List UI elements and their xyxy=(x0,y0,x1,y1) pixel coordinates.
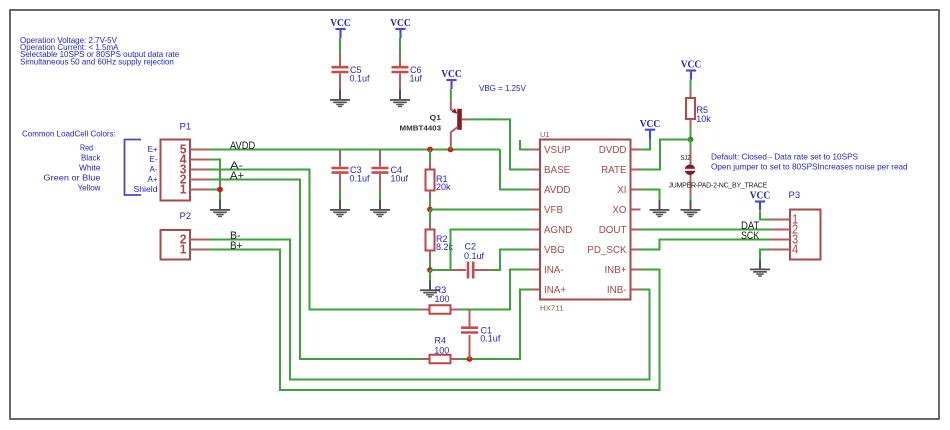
svg-text:U1: U1 xyxy=(540,130,550,139)
svg-text:DVDD: DVDD xyxy=(599,145,627,156)
svg-text:A-: A- xyxy=(150,165,158,174)
svg-text:VCC: VCC xyxy=(640,118,661,130)
jumper SJ2 pads xyxy=(684,165,696,176)
ground symbol AGND xyxy=(420,289,440,297)
junction dot RATE (green) xyxy=(688,137,694,143)
svg-text:A+: A+ xyxy=(230,170,244,182)
wire C3 to ground xyxy=(339,191,341,201)
connector P3 box xyxy=(790,210,821,260)
capacitor C4 xyxy=(372,168,389,173)
capacitor C3 bottom pin xyxy=(339,174,341,191)
wire DOUT net xyxy=(641,229,771,231)
capacitor C1 top pin xyxy=(469,310,471,327)
junction dot AVDD/Q1 collector xyxy=(448,147,454,153)
svg-text:AVDD: AVDD xyxy=(544,185,571,196)
svg-text:P2: P2 xyxy=(180,211,192,222)
vcc symbol P3 xyxy=(750,190,771,211)
resistor R1 top pin xyxy=(429,161,431,170)
ground symbol C3 xyxy=(330,209,350,217)
resistor R1 bottom pin xyxy=(429,191,431,199)
wire VCC to Q1 emitter xyxy=(450,89,452,100)
svg-text:E+: E+ xyxy=(147,145,157,154)
svg-text:VSUP: VSUP xyxy=(544,145,571,156)
svg-text:INA+: INA+ xyxy=(544,285,566,296)
transistor Q1 base pin xyxy=(462,118,469,120)
wire Q1 collector to AVDD xyxy=(450,146,452,150)
svg-text:P3: P3 xyxy=(789,190,801,201)
svg-text:Yellow: Yellow xyxy=(78,183,102,193)
svg-text:INB+: INB+ xyxy=(604,265,626,276)
U1 right pin stub XO xyxy=(631,209,641,211)
resistor R2 xyxy=(426,230,435,251)
wire R4 to INA+ xyxy=(460,290,531,360)
svg-text:A+: A+ xyxy=(147,175,157,184)
wire VFB to R2 xyxy=(429,210,431,222)
P3 pin 3 stub xyxy=(770,239,790,241)
svg-text:JUMPER-PAD-2-NC_BY_TRACE: JUMPER-PAD-2-NC_BY_TRACE xyxy=(669,183,768,190)
junction dot AVDD/R1 xyxy=(427,147,433,153)
svg-text:VCC: VCC xyxy=(330,17,351,29)
wire AVDD main horizontal xyxy=(210,149,501,151)
resistor R4 xyxy=(430,355,451,364)
wire RATE to SJ2 xyxy=(690,140,692,149)
capacitor C2 left pin xyxy=(451,269,467,271)
ic U1 box xyxy=(540,140,631,300)
svg-text:BASE: BASE xyxy=(544,165,571,176)
wire VCC to R5 xyxy=(690,79,692,90)
connector P1 box xyxy=(161,140,191,201)
wire A- net xyxy=(210,170,420,310)
connector P2 box xyxy=(161,230,191,260)
svg-text:Default: Closed - Data rate se: Default: Closed - Data rate set to 10SPS xyxy=(711,152,859,161)
wire VCC to P3 pin1 xyxy=(760,211,770,220)
junction dot AGND xyxy=(427,267,433,273)
U1 left pin stub VSUP xyxy=(531,149,541,151)
wire Shield pin to junction xyxy=(210,189,221,191)
svg-text:Green or Blue: Green or Blue xyxy=(44,173,101,183)
ground symbol P1 xyxy=(210,209,230,217)
svg-text:SCK: SCK xyxy=(741,230,760,242)
svg-text:100: 100 xyxy=(435,294,450,304)
capacitor C3 xyxy=(332,168,349,173)
resistor R2 bottom pin xyxy=(429,251,431,259)
capacitor C6 xyxy=(392,67,409,72)
resistor R1 xyxy=(426,170,435,191)
svg-text:HX711: HX711 xyxy=(540,304,564,313)
capacitor C2 right pin xyxy=(474,269,491,271)
ground stub C3 xyxy=(339,200,341,210)
svg-text:1: 1 xyxy=(180,242,187,257)
svg-text:Simultaneous 50 and 60Hz suppl: Simultaneous 50 and 60Hz supply rejectio… xyxy=(20,57,174,66)
svg-text:AGND: AGND xyxy=(544,225,572,236)
svg-text:B+: B+ xyxy=(230,240,243,252)
U1 right pin stub PD_SCK xyxy=(631,249,641,251)
wire RATE net xyxy=(641,140,691,170)
svg-text:0.1uf: 0.1uf xyxy=(350,74,371,84)
capacitor C3 top pin xyxy=(339,150,341,167)
wire B+ net xyxy=(210,250,660,391)
capacitor C2 xyxy=(468,262,473,279)
capacitor C4 bottom pin xyxy=(379,174,381,191)
P3 pin 4 stub xyxy=(770,249,790,251)
resistor R3 left pin xyxy=(420,309,430,311)
resistor R4 left pin xyxy=(420,358,430,360)
wire BASE net xyxy=(469,119,531,169)
svg-text:Black: Black xyxy=(81,152,101,162)
svg-text:Common LoadCell Colors:: Common LoadCell Colors: xyxy=(22,130,116,139)
P1 pin 2 stub xyxy=(190,179,210,181)
transistor Q1 collector pin xyxy=(451,127,458,146)
junction dot VFB xyxy=(427,207,433,213)
svg-text:P1: P1 xyxy=(180,121,192,132)
svg-text:RATE: RATE xyxy=(601,165,627,176)
resistor R3 right pin xyxy=(451,309,461,311)
P1 pin 4 stub xyxy=(190,159,210,161)
resistor R3 xyxy=(430,305,451,314)
U1 right pin stub INB- xyxy=(631,289,641,291)
U1 left pin stub VFB xyxy=(531,209,541,211)
resistor R5 bottom pin xyxy=(690,119,692,128)
junction dot R4/C1 xyxy=(467,356,473,362)
wire AVDD drop to U1 xyxy=(500,150,531,190)
vcc symbol above C6 xyxy=(390,17,411,38)
U1 right pin stub DVDD xyxy=(631,149,641,151)
capacitor C4 top pin xyxy=(379,150,381,167)
ground symbol XI xyxy=(650,209,670,217)
ground symbol C4 xyxy=(370,209,390,217)
wire XI to ground xyxy=(641,190,660,201)
wire B- net xyxy=(210,240,650,380)
svg-text:4: 4 xyxy=(792,242,798,257)
svg-text:SJ2: SJ2 xyxy=(681,153,691,162)
svg-text:E-: E- xyxy=(150,155,158,164)
vcc symbol above R5 xyxy=(681,59,702,80)
svg-text:VBG = 1.25V: VBG = 1.25V xyxy=(479,84,527,93)
svg-text:VBG: VBG xyxy=(544,245,565,256)
svg-text:0.1uf: 0.1uf xyxy=(480,334,501,344)
U1 left pin stub INA- xyxy=(531,269,541,271)
resistor R2 top pin xyxy=(429,222,431,230)
resistor R5 top pin xyxy=(690,90,692,98)
U1 right pin stub XI xyxy=(631,189,641,191)
wire VBG net xyxy=(491,250,531,271)
svg-text:PD_SCK: PD_SCK xyxy=(587,245,627,256)
svg-text:DOUT: DOUT xyxy=(599,225,627,236)
U1 left pin stub INA+ xyxy=(531,289,541,291)
svg-text:C2: C2 xyxy=(465,242,477,252)
wire AVDD to R1 xyxy=(429,150,431,162)
wire VFB xyxy=(430,209,531,211)
ground symbol P3 xyxy=(750,269,770,277)
capacitor C1 bottom pin xyxy=(469,335,471,359)
wire R1 to VFB node xyxy=(429,199,431,210)
svg-text:VFB: VFB xyxy=(544,205,564,216)
ground stub P1 xyxy=(219,200,221,210)
P2 pin 2 stub xyxy=(190,239,210,241)
ground stub C5 xyxy=(339,90,341,100)
capacitor C1 xyxy=(461,328,478,333)
svg-text:10k: 10k xyxy=(696,114,711,124)
capacitor C6 bottom pin xyxy=(399,74,401,90)
svg-text:1: 1 xyxy=(180,182,187,197)
svg-text:Shield: Shield xyxy=(134,185,158,194)
P2 pin 1 stub xyxy=(190,249,210,251)
wire R3 to INA- xyxy=(460,270,531,310)
wire VCC to C5 xyxy=(339,38,341,52)
U1 right pin stub INB+ xyxy=(631,269,641,271)
wire R2 to AGND node xyxy=(429,259,431,271)
vcc symbol DVDD xyxy=(640,118,661,139)
legend bracket xyxy=(125,140,142,196)
U1 left pin stub VBG xyxy=(531,249,541,251)
capacitor C5 bottom pin xyxy=(339,74,341,90)
svg-text:MMBT4403: MMBT4403 xyxy=(400,124,442,133)
svg-text:R4: R4 xyxy=(435,336,447,346)
ground stub P3 xyxy=(759,261,761,270)
U1 left pin stub AVDD xyxy=(531,189,541,191)
transistor Q1 base bar xyxy=(457,109,462,130)
svg-text:INB-: INB- xyxy=(607,285,627,296)
ground stub C4 xyxy=(379,200,381,210)
wire E- net xyxy=(210,160,221,200)
svg-text:VCC: VCC xyxy=(441,68,462,80)
svg-text:0.1uf: 0.1uf xyxy=(464,251,485,261)
svg-text:0.1uf: 0.1uf xyxy=(350,174,371,184)
U1 left pin stub AGND xyxy=(531,229,541,231)
svg-text:20k: 20k xyxy=(436,182,451,192)
jumper SJ2 top pin xyxy=(690,148,692,165)
svg-text:VCC: VCC xyxy=(681,59,702,71)
wire PD_SCK net xyxy=(641,240,771,250)
wire VSUP net xyxy=(520,140,531,150)
svg-text:Red: Red xyxy=(80,142,93,152)
jumper SJ2 bottom pin xyxy=(690,175,692,196)
wire AGND xyxy=(430,230,531,271)
svg-text:AVDD: AVDD xyxy=(230,140,255,152)
wire R5 to RATE node xyxy=(690,128,692,140)
ground stub AGND xyxy=(429,281,431,290)
svg-text:XI: XI xyxy=(617,185,626,196)
P3 pin 2 stub xyxy=(770,229,790,231)
svg-text:1uf: 1uf xyxy=(410,74,423,84)
ground symbol C5 xyxy=(330,99,350,107)
svg-text:VCC: VCC xyxy=(390,17,411,29)
wire VCC to C6 xyxy=(399,38,401,52)
svg-text:10uf: 10uf xyxy=(391,174,409,184)
ground stub C6 xyxy=(399,90,401,100)
wire P3 pin4 to ground xyxy=(760,250,770,261)
capacitor C5 xyxy=(332,67,349,72)
U1 right pin stub DOUT xyxy=(631,229,641,231)
svg-text:XO: XO xyxy=(612,205,627,216)
U1 right pin stub RATE xyxy=(631,169,641,171)
junction dot shield xyxy=(217,187,223,193)
capacitor C5 top pin xyxy=(339,52,341,66)
wire SJ2 to ground xyxy=(690,196,692,201)
wire A+ net xyxy=(210,180,420,360)
resistor R4 right pin xyxy=(451,358,461,360)
P1 pin 1 stub xyxy=(190,189,210,191)
svg-text:Open jumper to set to 80SPSInc: Open jumper to set to 80SPSIncreases noi… xyxy=(711,163,908,172)
svg-text:VCC: VCC xyxy=(750,190,771,202)
ground stub SJ2 xyxy=(690,201,692,210)
svg-text:Q1: Q1 xyxy=(430,113,441,122)
U1 left pin stub BASE xyxy=(531,169,541,171)
wire AGND to ground xyxy=(429,270,431,281)
ground symbol SJ2 xyxy=(681,209,701,217)
transistor Q1 emitter pin xyxy=(451,100,457,113)
capacitor C6 top pin xyxy=(399,52,401,66)
P1 pin 3 stub xyxy=(190,169,210,171)
svg-text:100: 100 xyxy=(434,345,449,355)
ground stub XI xyxy=(659,200,661,210)
transistor Q1 emitter arrow xyxy=(452,108,458,113)
P1 pin 5 stub xyxy=(190,149,210,151)
resistor R5 xyxy=(686,98,695,119)
wire C4 to ground xyxy=(379,191,381,201)
vcc symbol above Q1 xyxy=(441,68,462,89)
P3 pin 1 stub xyxy=(770,219,790,221)
wire DVDD to VCC xyxy=(641,139,651,150)
svg-text:INA-: INA- xyxy=(544,265,564,276)
ground symbol C6 xyxy=(390,99,410,107)
svg-text:White: White xyxy=(79,162,101,172)
vcc symbol above C5 xyxy=(330,17,351,38)
